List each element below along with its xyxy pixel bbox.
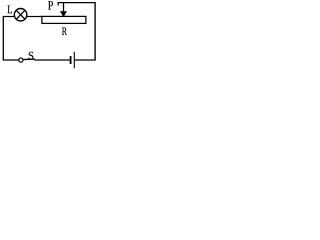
switch S contact circle <box>19 58 23 62</box>
battery negative short plate <box>70 56 72 64</box>
battery positive long plate <box>73 52 75 69</box>
wire top stub <box>57 3 59 6</box>
rheostat R body <box>42 16 86 23</box>
wire bottom middle segment <box>35 59 70 61</box>
wire lamp left horizontal <box>3 16 16 18</box>
label L <box>7 5 12 13</box>
slider arrow P <box>60 3 67 17</box>
wire left vertical <box>2 17 4 61</box>
label P <box>48 1 53 9</box>
wire right vertical <box>94 3 96 60</box>
wire bottom left segment <box>3 59 19 61</box>
wire bottom right segment <box>75 59 96 61</box>
switch S blade <box>23 58 35 61</box>
lamp L <box>14 9 27 22</box>
wire lamp to rheostat <box>27 16 42 18</box>
label S <box>29 52 34 60</box>
wire top horizontal <box>58 2 96 4</box>
label R <box>62 27 67 35</box>
